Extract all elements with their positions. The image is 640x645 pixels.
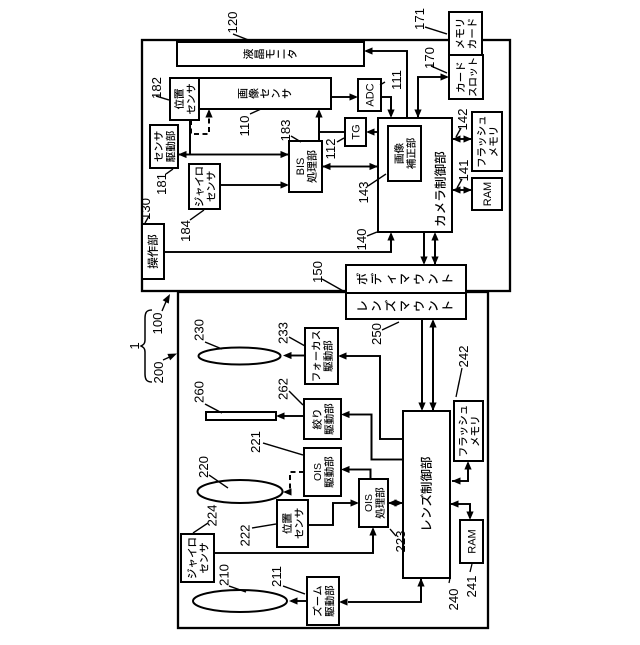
wire operation unit to camera controller [164, 232, 395, 252]
label 240 [446, 578, 461, 611]
svg-text:130: 130 [138, 198, 153, 220]
svg-text:184: 184 [178, 220, 193, 242]
wire BIS processor to camera controller [322, 163, 378, 170]
block lens flash memory 242 [454, 401, 483, 461]
svg-text:RAM: RAM [482, 182, 494, 206]
svg-text:120: 120 [225, 11, 240, 33]
svg-text:210: 210 [217, 564, 232, 586]
svg-text:222: 222 [238, 524, 253, 546]
wire body mount bus B [431, 232, 438, 265]
wire TG and BIS to image sensor [315, 109, 345, 141]
label 110 [237, 109, 261, 137]
svg-text:200: 200 [151, 361, 166, 383]
block OIS driver 221 [304, 448, 341, 496]
wire lens controller to flash memory 242 [452, 461, 472, 485]
svg-text:233: 233 [276, 322, 291, 344]
wire camera controller to RAM 141 [452, 186, 472, 193]
svg-text:BIS: BIS [295, 158, 307, 176]
block camera controller 140 [378, 118, 452, 232]
svg-text:220: 220 [196, 456, 211, 478]
svg-text:110: 110 [237, 115, 252, 136]
wire lens controller to aperture driver [341, 411, 403, 460]
wire OIS processor to lens controller [388, 499, 403, 506]
svg-text:181: 181 [154, 173, 169, 195]
label 182 [149, 77, 169, 100]
block focus driver 233 [305, 328, 338, 384]
label 100 [150, 294, 170, 335]
block image sensor 110 [199, 78, 331, 109]
block OIS processor 223 [359, 479, 388, 527]
wire position sensor 182 junction [189, 120, 191, 155]
svg-text:ADC: ADC [365, 83, 377, 106]
block aperture driver 262 [304, 399, 341, 439]
block camera RAM 141 [472, 178, 502, 210]
block zoom driver 211 [307, 577, 339, 625]
wire body mount bus A [420, 232, 427, 265]
label 170 [422, 47, 447, 73]
wire zoom driver to zoom lens [289, 597, 307, 604]
block LCD monitor 120 [177, 42, 364, 66]
block gyro sensor 184 [189, 164, 220, 209]
wire camera controller to flash memory 142 [452, 135, 472, 142]
block sensor driver 181 [150, 125, 178, 168]
block card slot 170 [449, 55, 483, 99]
label 200 [151, 354, 177, 384]
wire ADC to camera controller [381, 97, 395, 118]
focus lens element 230 [199, 348, 281, 365]
wire BIS processor to sensor driver [178, 151, 289, 158]
label 223 [390, 529, 408, 553]
svg-text:141: 141 [456, 159, 471, 181]
wire OIS processor to OIS driver [341, 466, 371, 479]
wire focus driver to focus lens [283, 352, 305, 359]
block operation unit 130 [142, 224, 164, 279]
wire camera controller to TG [366, 128, 378, 135]
svg-text:242: 242 [456, 345, 471, 367]
svg-text:221: 221 [248, 431, 263, 453]
label 222 [238, 524, 277, 547]
block gyro sensor 224 [181, 534, 214, 582]
svg-text:240: 240 [446, 588, 461, 610]
dashed wire position sensor to image sensor [191, 109, 213, 134]
zoom lens element 210 [193, 590, 287, 612]
wire lens controller to zoom driver [339, 578, 425, 606]
svg-text:142: 142 [455, 108, 470, 130]
label 211 [269, 566, 305, 594]
label 142 [455, 108, 470, 137]
label 184 [178, 210, 204, 242]
label 224 [193, 504, 220, 533]
label 130 [138, 198, 153, 223]
label 141 [456, 159, 471, 188]
svg-text:183: 183 [278, 119, 293, 141]
label 140 [354, 228, 377, 250]
svg-text:OIS: OIS [312, 463, 324, 481]
dashed wire OIS driver to OIS lens [283, 472, 304, 496]
label 220 [196, 456, 228, 488]
wire lens controller to RAM 241 [450, 500, 474, 520]
svg-text:250: 250 [369, 323, 384, 345]
label 233 [276, 322, 306, 346]
svg-text:260: 260 [192, 381, 207, 403]
label lens controller text [420, 457, 432, 529]
label 241 [464, 564, 479, 598]
label 150 [310, 261, 345, 292]
OIS lens element 220 [198, 480, 283, 503]
label 111 [380, 70, 404, 90]
svg-text:170: 170 [422, 47, 437, 69]
label 230 [192, 319, 223, 349]
svg-text:112: 112 [323, 138, 338, 159]
wire lens mount bus B [429, 319, 436, 411]
block position sensor 182 [170, 78, 199, 120]
camera body outline 100 [142, 40, 510, 291]
label camera controller text [434, 152, 446, 226]
wire aperture driver to aperture [276, 412, 304, 419]
label 262 [276, 378, 304, 405]
block ADC 111 [358, 79, 381, 111]
block body mount 150 [346, 265, 466, 293]
wire gyro sensor 224 to OIS processor [214, 527, 377, 553]
label 210 [217, 564, 247, 592]
label 143 [356, 174, 386, 204]
label 181 [154, 169, 173, 195]
block lens RAM 241 [460, 520, 483, 563]
label 183 [278, 119, 301, 142]
label 242 [456, 345, 471, 397]
lens unit outline 200 [178, 292, 488, 628]
wire controller to LCD monitor [364, 47, 407, 118]
svg-text:171: 171 [412, 8, 427, 30]
wire lens mount bus A [418, 319, 425, 411]
svg-text:230: 230 [192, 319, 207, 341]
label 221 [248, 431, 303, 455]
svg-text:TG: TG [351, 124, 363, 139]
block position sensor 222 [277, 500, 308, 547]
label 171 [412, 8, 447, 34]
svg-text:OIS: OIS [363, 494, 375, 512]
wire gyro sensor 184 to BIS processor [220, 181, 289, 188]
label 250 [369, 322, 399, 345]
block TG 112 [345, 118, 366, 146]
svg-text:211: 211 [269, 566, 284, 587]
block BIS processor 183 [289, 141, 322, 192]
wire camera controller to card slot [414, 73, 449, 118]
svg-text:100: 100 [150, 312, 165, 334]
svg-text:111: 111 [389, 70, 404, 90]
label 120 [225, 11, 251, 41]
label 112 [323, 138, 344, 160]
block camera flash memory 142 [472, 112, 502, 171]
svg-text:RAM: RAM [467, 529, 479, 553]
label 260 [192, 381, 223, 413]
brace for 1 over 100 and 200 [141, 310, 152, 382]
wire position sensor 222 to OIS processor [308, 499, 359, 525]
block memory card 171 [449, 12, 482, 55]
svg-text:140: 140 [354, 228, 369, 250]
wire image sensor to ADC [331, 93, 358, 100]
block image correction 143 [388, 126, 421, 181]
block lens controller 240 [403, 411, 450, 578]
svg-text:262: 262 [276, 378, 291, 400]
label 1 [127, 342, 142, 349]
block lens mount 250 [346, 293, 466, 319]
svg-text:223: 223 [393, 530, 408, 552]
wire lens controller to focus driver [338, 352, 403, 439]
svg-text:241: 241 [464, 575, 479, 597]
aperture blade 260 [206, 412, 276, 420]
